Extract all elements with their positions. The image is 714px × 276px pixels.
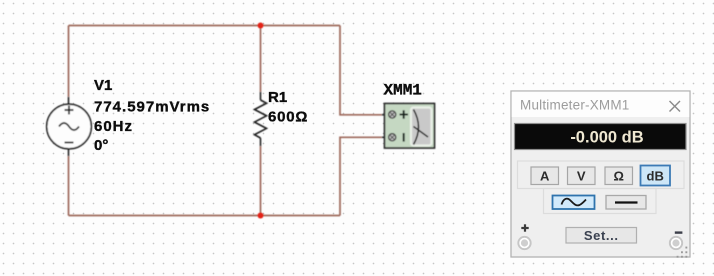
terminal minus bbox=[670, 237, 682, 249]
button ohm bbox=[605, 167, 633, 185]
button sine selected bbox=[553, 196, 595, 210]
svg-text:0°: 0° bbox=[94, 137, 108, 154]
svg-text:Set...: Set... bbox=[584, 228, 619, 243]
value 774.597mVrms bbox=[94, 99, 210, 116]
wire R1 top branch bbox=[260, 26, 262, 93]
wire top bbox=[69, 25, 341, 27]
button dB selected bbox=[641, 166, 671, 186]
minus label bbox=[675, 231, 683, 233]
wire XMM1 plus bbox=[340, 26, 382, 115]
wire bottom bbox=[69, 215, 341, 217]
svg-text:R1: R1 bbox=[268, 89, 287, 106]
resistor R1 bbox=[255, 92, 267, 146]
value 0deg bbox=[94, 137, 108, 154]
label XMM1 bbox=[384, 82, 422, 100]
ac source V1 bbox=[47, 97, 92, 156]
terminal plus bbox=[518, 237, 530, 249]
wire R1 bottom branch bbox=[260, 146, 262, 216]
close X bbox=[670, 101, 681, 112]
svg-text:A: A bbox=[540, 169, 550, 184]
svg-text:XMM1: XMM1 bbox=[384, 82, 422, 100]
svg-text:V: V bbox=[577, 169, 586, 184]
button A bbox=[531, 167, 559, 185]
svg-text:Multimeter-XMM1: Multimeter-XMM1 bbox=[520, 98, 630, 113]
button dc bbox=[606, 196, 646, 210]
svg-text:dB: dB bbox=[647, 169, 664, 184]
multimeter XMM1 icon bbox=[382, 104, 435, 149]
label R1 bbox=[268, 89, 287, 106]
junction bottom bbox=[258, 213, 264, 219]
svg-text:V1: V1 bbox=[94, 77, 112, 94]
wire XMM1 minus bbox=[340, 137, 382, 215]
pin plus terminal bbox=[389, 111, 396, 118]
svg-text:Ω: Ω bbox=[613, 169, 623, 184]
wire left lower bbox=[68, 156, 70, 216]
plus mark bbox=[400, 114, 409, 116]
svg-text:-0.000 dB: -0.000 dB bbox=[570, 129, 643, 147]
group box waveform bbox=[544, 189, 657, 214]
wire left bbox=[68, 26, 70, 98]
minus mark bbox=[403, 133, 405, 142]
value 600ohm bbox=[268, 109, 308, 126]
plus label bbox=[521, 224, 528, 231]
label V1 bbox=[94, 77, 112, 94]
svg-text:774.597mVrms: 774.597mVrms bbox=[94, 99, 210, 116]
resize grip bbox=[677, 247, 688, 258]
display bbox=[515, 124, 687, 150]
multimeter dialog window bbox=[511, 91, 690, 258]
group box modes bbox=[518, 161, 685, 189]
button V bbox=[568, 167, 596, 185]
svg-text:60Hz: 60Hz bbox=[94, 118, 133, 135]
pin minus terminal bbox=[389, 134, 396, 141]
svg-text:600Ω: 600Ω bbox=[268, 109, 308, 126]
value 60Hz bbox=[94, 118, 133, 135]
junction top bbox=[258, 23, 264, 29]
button Set bbox=[566, 228, 637, 244]
